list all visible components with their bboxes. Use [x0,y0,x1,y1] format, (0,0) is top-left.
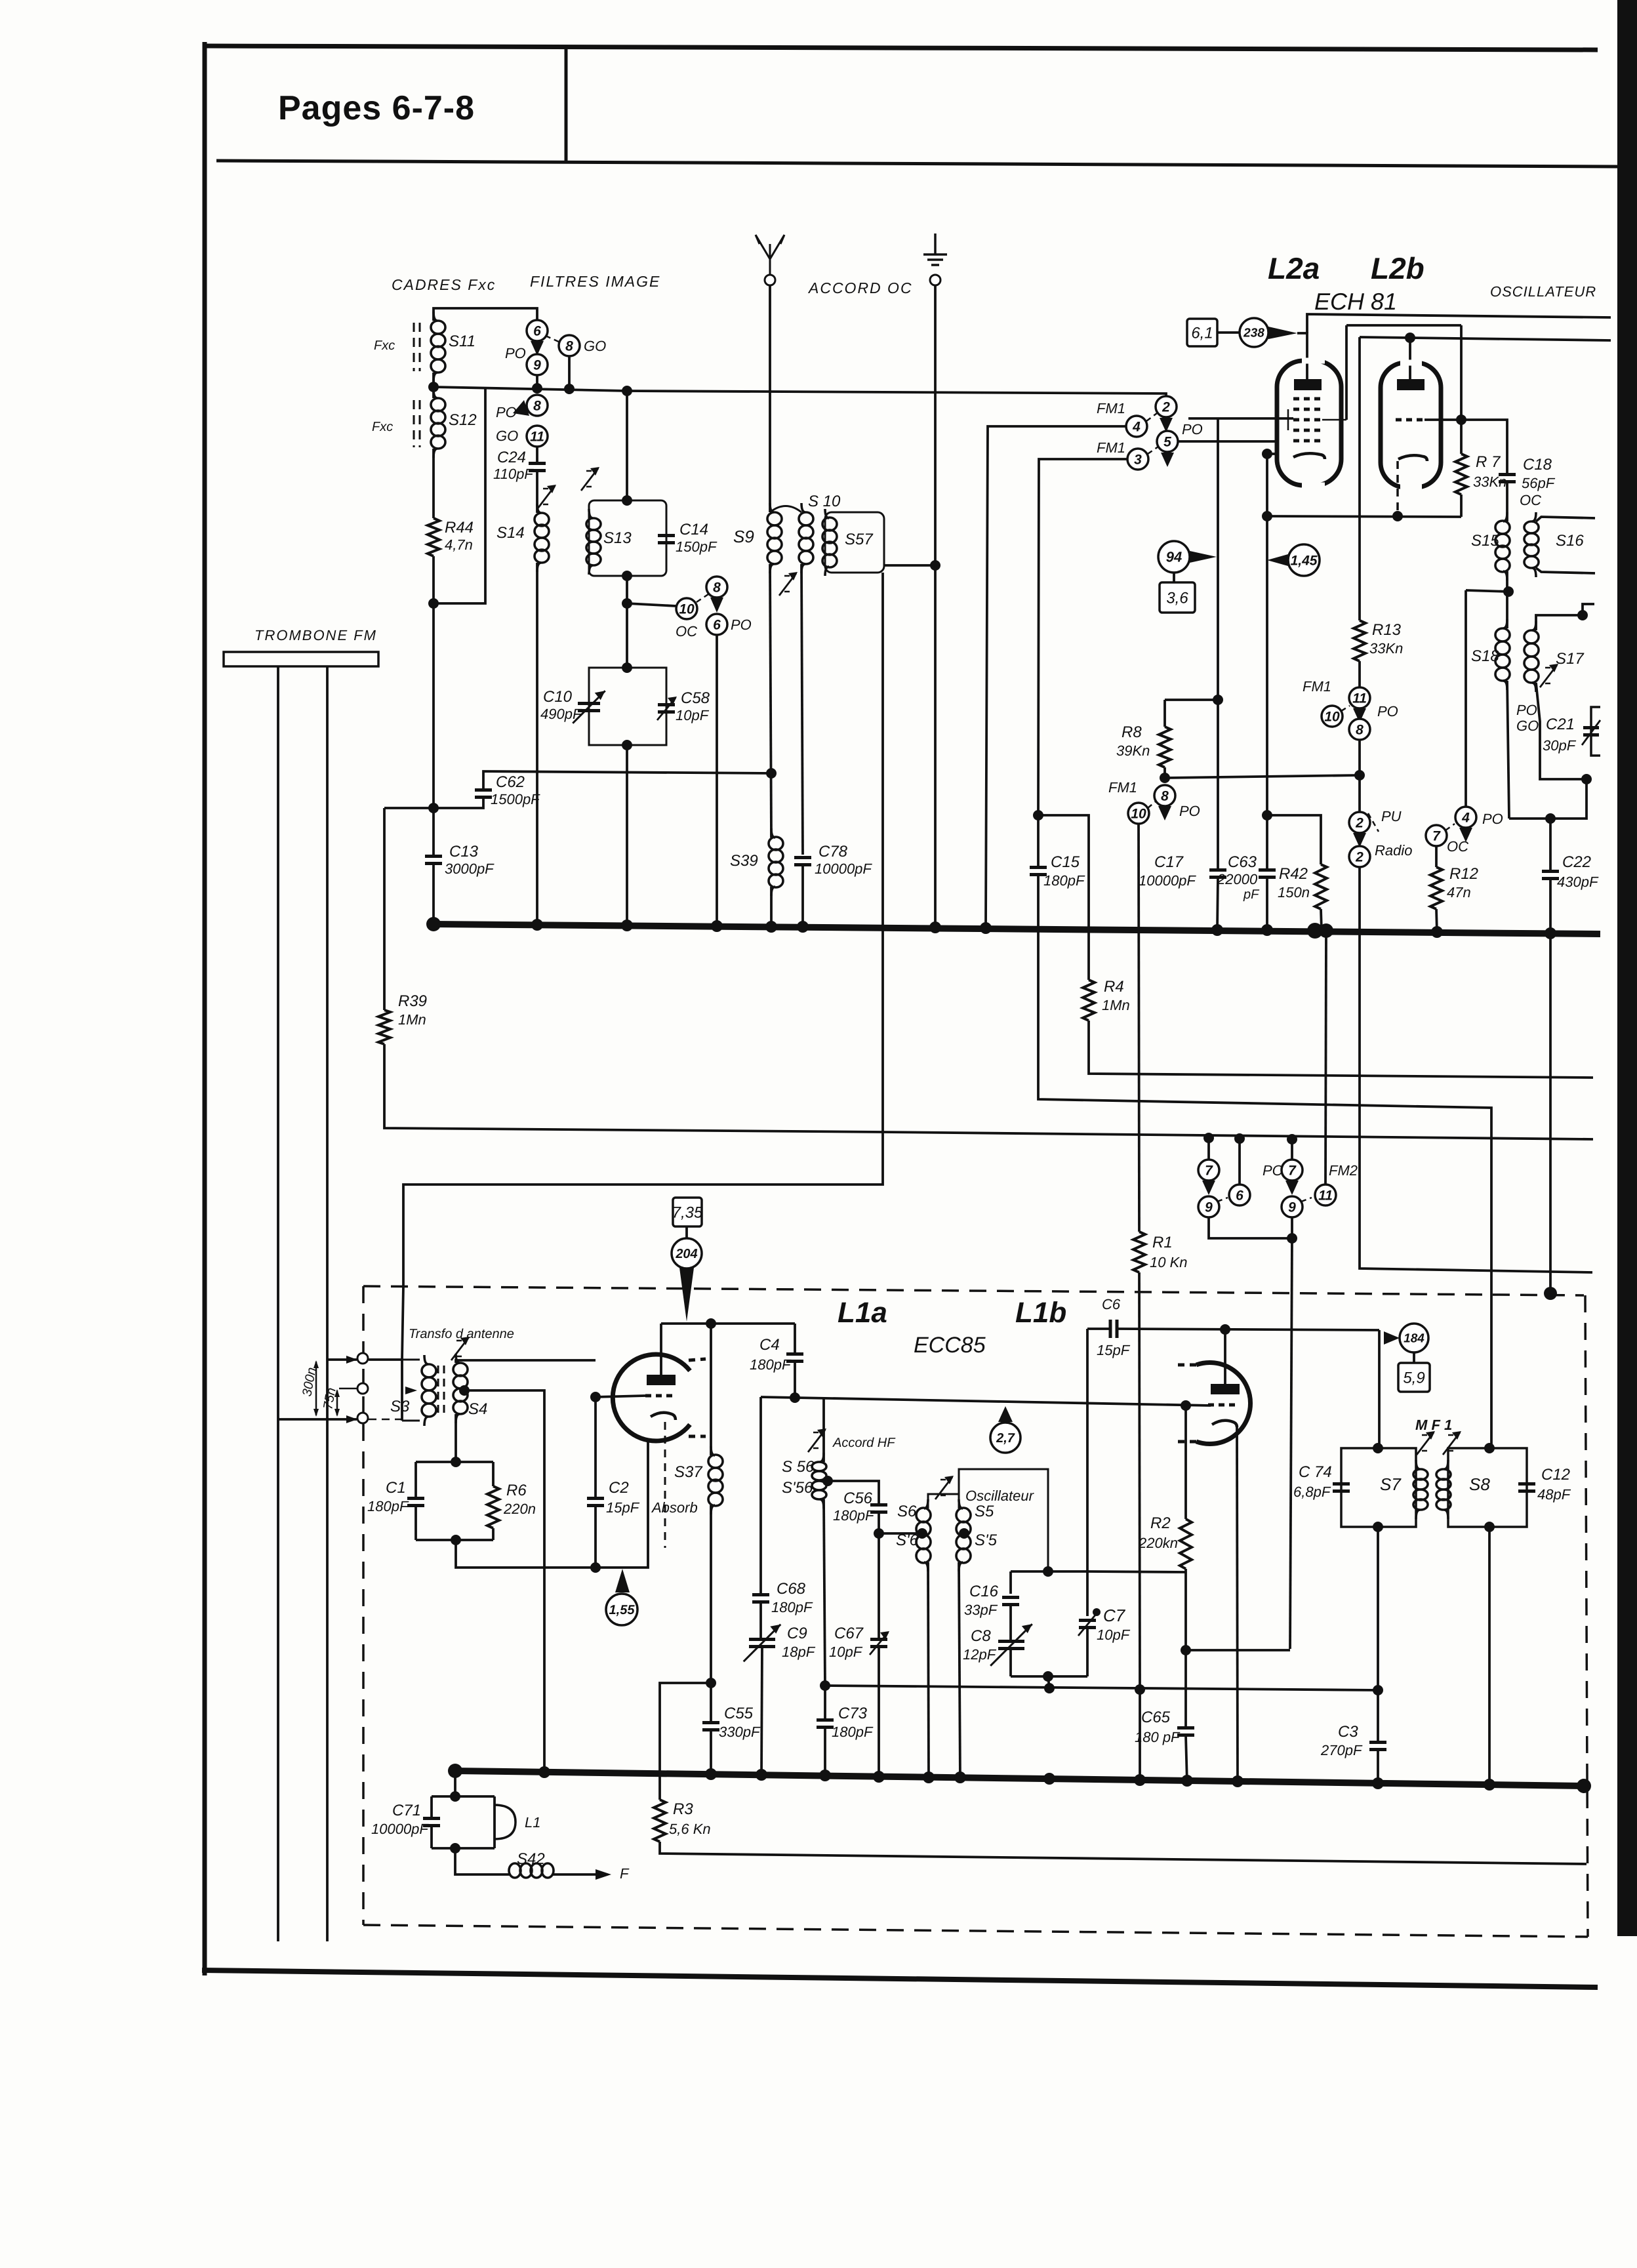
node FM2 stub 6 [1234,1133,1245,1144]
inductor S39 [769,828,783,896]
wire C2 column [594,1397,597,1498]
svg-text:C12: C12 [1541,1466,1570,1484]
resistor R2 [1180,1519,1192,1569]
svg-text:L2b: L2b [1371,251,1425,285]
svg-text:R 7: R 7 [1476,453,1501,471]
wire C78 to bus [801,865,804,927]
wire R42 to bus [1321,909,1322,931]
wire C13 to bus [432,864,435,924]
node C3 top [1373,1685,1383,1695]
switch contact 6 [527,320,548,341]
wire C22 column [1549,819,1552,870]
svg-text:PO: PO [1516,702,1537,718]
osc cap group top ext [1087,1571,1185,1572]
svg-text:220n: 220n [503,1501,536,1517]
capacitor C17 [1209,870,1226,878]
svg-text:180 pF: 180 pF [1135,1729,1181,1745]
capacitor C63 [1259,870,1276,878]
node contact 8 GO on net [564,384,575,394]
wire S8 bottom to bus2 [1488,1527,1491,1785]
wire contact 6 down to bus [716,635,718,925]
wire contact7 to R12 [1435,846,1438,867]
svg-text:R8: R8 [1122,723,1142,741]
wire R2 to C65 [1184,1569,1187,1728]
node on dashed border [1544,1287,1557,1300]
svg-text:4: 4 [1461,810,1470,825]
wire branch to R4 [1038,815,1089,980]
svg-text:FM1: FM1 [1097,439,1125,456]
wire anode up [660,1324,662,1375]
wire S11 top to switch column [434,308,537,321]
trimmer between S9/S10 [779,572,798,596]
svg-text:S4: S4 [468,1400,487,1418]
wire junction to S6 [879,1532,922,1535]
svg-text:6,8pF: 6,8pF [1293,1484,1331,1500]
svg-text:7,35: 7,35 [672,1204,703,1221]
arch S6-S5 [928,1494,959,1509]
capacitor C13 [425,857,442,864]
core dashes S11 [419,323,421,371]
measure box 7,35 [672,1198,703,1226]
svg-text:pF: pF [1243,887,1260,902]
bus node C22 [1545,927,1556,939]
node R44 bottom [428,598,439,609]
svg-text:10pF: 10pF [676,707,710,723]
inductor S14 [535,504,549,572]
node cathode net at dash [1392,511,1403,521]
capacitor C10 variable [578,704,600,711]
capacitor C18 [1499,475,1516,482]
wire R1 down to C6 node [1139,1272,1140,1690]
svg-text:C24: C24 [497,449,526,466]
wire group to long net [1048,1676,1049,1688]
wire C73 top lead [824,1686,826,1720]
IF can S8 frame [1448,1448,1527,1527]
svg-text:S15: S15 [1471,532,1499,550]
trimmer osc [935,1476,954,1499]
svg-text:2,7: 2,7 [996,1431,1015,1446]
wire trombone to terminal 75 [278,1418,357,1421]
wire C7 leg [1086,1571,1089,1616]
wire contact 3 feed via C15 [1038,459,1127,815]
trimmer at S17 [1540,664,1558,687]
left grid dashes [645,1394,677,1398]
page frame top border [205,46,1598,50]
wire R44 to lower junction [432,556,435,808]
svg-text:FM2: FM2 [1329,1162,1358,1179]
resistor R12 [1430,867,1442,909]
node switch C tap [622,598,632,609]
svg-text:10000pF: 10000pF [815,861,872,877]
svg-text:C63: C63 [1228,853,1257,871]
resistor R3 [654,1800,666,1842]
wire C8 low [1009,1649,1012,1676]
wire L1 leg [493,1796,496,1848]
capacitor C8 variable [998,1642,1024,1649]
svg-text:PO: PO [1179,803,1200,819]
svg-text:6: 6 [713,617,721,632]
resistor R42 [1315,864,1327,909]
inductor L1 bumps [495,1805,515,1839]
inductor S11 [431,312,445,382]
svg-text:R44: R44 [445,519,474,537]
switch FM2 contact 11 [1315,1185,1336,1205]
node grid/C2 [590,1392,601,1402]
svg-text:C 74: C 74 [1299,1463,1332,1481]
bus node C63 [1261,924,1273,936]
capacitor C78 [794,858,811,865]
terminal 300ohm a [357,1353,368,1364]
wire R8 top tie [1165,699,1218,701]
svg-text:S9: S9 [733,527,754,546]
triangle 1,55 [615,1569,630,1592]
svg-text:M F 1: M F 1 [1415,1417,1452,1433]
inductor S9 [767,503,782,573]
wire C4 column [794,1324,796,1354]
S3 box top edge [402,1359,420,1361]
node S17 top [1577,610,1588,620]
svg-text:C73: C73 [838,1705,868,1722]
switch contact 9 [527,354,548,375]
measure circle 204 [672,1238,702,1268]
svg-text:8: 8 [1161,788,1169,803]
wire C4 to grid net [794,1362,796,1398]
bus node switchC [711,920,723,932]
wire FM2 stub b [1291,1140,1293,1160]
svg-text:1,55: 1,55 [609,1603,636,1617]
wire C6 left lead [1087,1327,1110,1330]
inductor S10 [799,503,813,573]
bus2 node S5 [954,1772,966,1783]
switch wiper triangle D2 [1161,453,1174,467]
svg-text:Fxc: Fxc [372,420,393,434]
node R2/C65 branch [1181,1645,1191,1655]
wire C68 leg [759,1397,762,1595]
node FM2 stub b [1287,1134,1297,1144]
switch FM2 contact 9b [1282,1196,1303,1217]
FM box dashed right [1585,1295,1588,1937]
wire S13 box top stub [626,391,628,500]
wire C7 low [1086,1628,1089,1676]
switch wiper triangle A [531,341,544,355]
svg-text:11: 11 [1318,1188,1333,1203]
inductor S4 [453,1354,468,1423]
tube ECH81 heptode envelope [1277,361,1341,485]
node on horizontal at S13 [622,386,632,396]
heptode grid tie [1287,409,1289,430]
dashed link 10-8 E [1148,801,1156,808]
bus node C17 [1211,924,1223,936]
triangle 1,45 [1267,554,1288,566]
svg-text:GO: GO [584,338,606,354]
capacitor C3 [1369,1743,1386,1750]
svg-text:430pF: 430pF [1557,874,1599,890]
node ground lead junction [930,560,940,571]
svg-text:Pages 6-7-8: Pages 6-7-8 [278,89,475,127]
wire trombone to terminal 300 A [327,1358,357,1361]
svg-text:S7: S7 [1380,1474,1402,1494]
arch S9-S10 tops [770,506,801,513]
bus2 node C3 [1372,1777,1384,1789]
capacitor C22 [1542,872,1559,879]
svg-text:C56: C56 [843,1489,873,1507]
node C62 branch [428,803,439,813]
node C1/R6 top [451,1457,461,1467]
node grid net R2 [1181,1400,1191,1411]
arrowhead terminal C [346,1415,357,1423]
svg-text:ECC85: ECC85 [914,1333,986,1358]
switch contact 7 OC (G) [1426,825,1447,846]
svg-text:C67: C67 [834,1625,864,1642]
capacitor C55 [702,1723,719,1730]
wire S57 down jog to FM box [403,573,883,1286]
svg-text:OC: OC [1447,838,1468,855]
node C21 net [1581,774,1592,784]
dashed link 9b-11 [1301,1198,1312,1202]
svg-text:30pF: 30pF [1543,737,1577,754]
svg-text:15pF: 15pF [606,1499,640,1516]
wire 238 to top cap [1297,333,1307,379]
svg-text:150n: 150n [1278,884,1310,901]
svg-text:Absorb: Absorb [651,1499,698,1516]
tube ECH81 triode envelope [1381,363,1441,487]
svg-text:PO: PO [496,404,517,420]
loop C71 top [432,1795,495,1798]
heptode top cap bar [1294,379,1322,390]
node R8 bottom [1160,773,1170,783]
svg-text:L1: L1 [525,1814,540,1831]
svg-text:CADRES Fxc: CADRES Fxc [392,276,496,293]
header underline [216,161,1617,167]
svg-text:C17: C17 [1154,853,1184,871]
svg-text:4,7n: 4,7n [445,537,473,553]
node C2 bottom [590,1562,601,1573]
svg-text:9: 9 [533,357,541,373]
capacitor C2 [587,1499,604,1506]
svg-text:110pF: 110pF [493,466,534,482]
svg-text:C18: C18 [1523,456,1552,474]
svg-text:S12: S12 [449,411,477,429]
node L1b anode tap [1220,1324,1230,1335]
svg-text:8: 8 [713,580,721,595]
svg-text:C21: C21 [1546,716,1575,733]
switch contact 10 (R13) [1322,706,1343,727]
svg-text:PO: PO [1263,1162,1283,1179]
svg-text:7: 7 [1205,1163,1213,1178]
arrow F [596,1869,611,1880]
node S13 box top [622,495,632,506]
node tank bottom [1043,1566,1053,1577]
svg-text:11: 11 [530,429,544,444]
switch FM2 contact 7b [1282,1160,1303,1181]
node C63 top [1262,810,1272,820]
svg-text:S8: S8 [1469,1474,1490,1494]
svg-text:238: 238 [1243,327,1264,340]
svg-text:S5: S5 [975,1503,994,1520]
svg-text:GO: GO [496,428,518,444]
node C10 box top [622,662,632,673]
inductor S12 [431,389,445,458]
dashed link 4-2 [1146,413,1157,421]
core dashes S3/S4 [437,1366,439,1417]
node C73 top [820,1680,830,1691]
wire C15 to S8 feed [1038,875,1491,1448]
inductor S13 [586,509,601,575]
node S7 bottom [1373,1522,1383,1532]
svg-text:Fxc: Fxc [374,338,395,353]
capacitor C21 trimmer [1583,728,1599,735]
trimmer MF1 b [1443,1431,1461,1455]
wire contact 8 GO down to net [568,356,571,389]
wire C18 to S15 [1506,482,1508,521]
resistor R1 [1133,1232,1145,1272]
wire S17 top out [1536,604,1594,630]
switch wiper triangle C [710,597,723,613]
wire C68-C9 [759,1602,762,1638]
svg-text:22000: 22000 [1217,871,1258,887]
svg-text:S14: S14 [496,524,525,542]
trimmer above S13 [581,467,599,491]
resistor R39 [378,1010,390,1044]
svg-text:C6: C6 [1102,1296,1121,1312]
wire osc grid link right drop [1460,325,1463,420]
wire ground lead down [934,285,937,565]
triangle 94 [1190,551,1217,563]
node contact 9 on net [532,383,542,394]
bus2 node S8 [1484,1779,1495,1791]
wire C2 low [594,1506,597,1568]
switch contact 11 GO [527,426,548,447]
switch contact 4 PO (G) [1455,807,1476,828]
ground symbol [923,233,947,265]
wire C9 to bus2 [761,1648,762,1775]
wire ground lead to bus [934,565,937,927]
dashed link 7-4 G [1445,824,1455,830]
wire C17 to bus [1217,878,1218,929]
svg-text:R12: R12 [1449,865,1478,883]
core dashes S12 [419,400,421,447]
wire top net oscillator A [1307,314,1611,333]
svg-text:S17: S17 [1556,650,1585,668]
svg-text:TROMBONE FM: TROMBONE FM [254,627,377,643]
wire antenna stem down to S9 [769,285,771,512]
svg-text:3,6: 3,6 [1166,589,1188,607]
capacitor C65 [1177,1728,1194,1735]
wire C16 leg [1009,1571,1012,1594]
bus node ground lead [929,921,941,933]
wire R39 down and across (FM2 feed) [384,1044,1593,1139]
svg-text:S57: S57 [845,531,874,548]
wire C3 top lead [1377,1690,1379,1743]
wire S7 bottom to C3 [1377,1527,1379,1690]
node cathode net left [1262,511,1272,521]
right anode bar [1211,1384,1240,1394]
svg-text:C2: C2 [609,1479,629,1497]
trimmer transfo [451,1337,470,1360]
capacitor C67 trimmer [870,1640,887,1647]
heptode grid row 1 [1293,397,1322,401]
dashed link 9a-6 [1217,1198,1228,1202]
inductor S3 [422,1355,436,1426]
svg-text:9: 9 [1205,1200,1213,1215]
capacitor C73 [817,1720,834,1728]
arrow C21 [1582,720,1600,745]
dashed link PU [1368,813,1379,832]
header vertical divider [565,47,568,162]
wire C63 top to R42 [1267,815,1321,864]
wire junction stub left [1466,590,1508,592]
bus2 node S6 [923,1772,935,1783]
capacitor C7 trimmer [1079,1621,1096,1628]
wire S'5 bottom to bus2 [959,1562,960,1781]
capacitor C1 [407,1499,424,1506]
wire S57 feed / S3 box left [402,1286,403,1421]
wire C62 bottom to junction [384,798,483,808]
svg-text:10 Kn: 10 Kn [1150,1254,1188,1270]
measure circle 184 [1400,1324,1428,1352]
switch wiper triangle R13 [1353,708,1366,723]
svg-text:C22: C22 [1562,853,1591,871]
svg-text:8: 8 [565,338,573,354]
node C15 top / R4 branch [1033,810,1043,820]
wire bus to FM2 contact 11 [1325,934,1326,1185]
wire cathode net [1267,516,1461,517]
svg-text:S 56: S 56 [782,1458,815,1476]
triangle 238 feed [1268,327,1297,339]
dashed link 10-11 R13 [1341,706,1350,711]
switch wiper triangle G [1459,828,1472,842]
svg-text:C68: C68 [777,1580,806,1598]
wire S17 bottom [1536,683,1586,779]
svg-text:270pF: 270pF [1320,1742,1363,1758]
arrow C7 [1078,1613,1097,1636]
node C71 loop top [450,1791,460,1802]
resistor R13 [1354,620,1365,661]
page frame left border [203,42,207,1975]
wire C22 line below bus [1549,934,1552,1293]
triangle 2,7 [998,1406,1013,1422]
wire C6 net [1118,1329,1379,1330]
svg-text:1500pF: 1500pF [491,791,540,807]
svg-text:2: 2 [1162,399,1170,415]
capacitor C16 [1002,1598,1019,1605]
svg-text:C3: C3 [1338,1723,1358,1741]
svg-text:GO: GO [1516,718,1539,734]
inductor S18 [1495,619,1510,690]
svg-text:PO: PO [1182,421,1203,437]
inductor S56 [812,1453,826,1509]
svg-text:490pF: 490pF [540,706,582,722]
coil box S57 [825,512,884,573]
svg-text:S18: S18 [1471,647,1499,665]
page frame bottom border [202,1970,1598,1987]
inductor S7 [1413,1460,1428,1519]
arrow C67 [870,1632,888,1655]
svg-text:S13: S13 [603,529,632,547]
FM box dashed left [362,1286,365,1925]
wire main horizontal net to mixer grid [434,387,1166,396]
svg-text:C9: C9 [787,1625,807,1642]
dimension line 300n [315,1362,317,1415]
svg-text:S42: S42 [517,1850,545,1868]
left cathode dash drop [664,1422,666,1548]
switch contact 10 OC [676,598,697,619]
svg-text:3: 3 [1134,452,1142,467]
wire C22 to bus [1549,879,1552,934]
svg-text:47n: 47n [1447,884,1471,901]
bus2 node C67 [873,1771,885,1783]
node FM2 stub a [1203,1133,1214,1143]
